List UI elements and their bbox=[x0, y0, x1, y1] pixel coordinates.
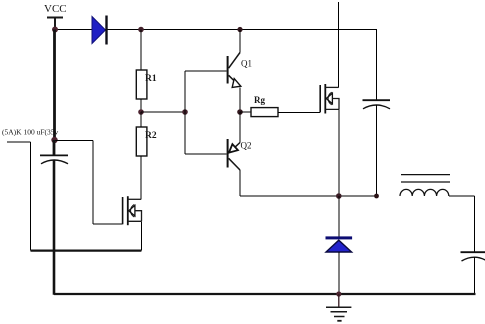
wire base rail vertical bbox=[184, 71, 186, 154]
node I (ground node) bbox=[336, 291, 341, 296]
wire inductor to C3 bbox=[449, 195, 475, 197]
wire Q2 collector vertical bbox=[239, 170, 241, 196]
node F (push-pull emitter junction) bbox=[237, 109, 243, 115]
resistor Rg bbox=[251, 108, 278, 117]
transistor Q1 (NPN) bbox=[228, 53, 241, 88]
node H (C1 / inductor junction) bbox=[374, 194, 379, 199]
capacitor C1 bbox=[363, 100, 391, 109]
svg-text:VCC: VCC bbox=[44, 3, 67, 15]
diode D2 (freewheeling) bbox=[326, 236, 353, 252]
wire C3 bottom lead bbox=[474, 257, 476, 294]
wire R1 top lead bbox=[140, 30, 142, 71]
diode D1 bbox=[92, 16, 107, 45]
node C (R1/R2 divider junction) bbox=[138, 109, 144, 115]
wire node to Rg bbox=[240, 111, 251, 113]
resistor R2 bbox=[136, 127, 147, 156]
wire Q4 source vertical bbox=[140, 221, 142, 250]
wire source return rail thick bbox=[31, 249, 142, 251]
node J (input cap junction) bbox=[51, 137, 57, 143]
transistor Q2 (PNP) bbox=[228, 139, 240, 170]
node B (top rail / R1 branch) bbox=[138, 27, 144, 33]
wire D2 cathode lead bbox=[338, 196, 340, 237]
wire C2 bottom thick vertical to bottom rail bbox=[53, 160, 56, 295]
wire Q1 emitter vertical bbox=[239, 88, 241, 113]
node E (Q1 collector on top rail) bbox=[237, 27, 242, 32]
svg-text:Rg: Rg bbox=[254, 95, 265, 105]
wire Q2 base lead bbox=[185, 153, 227, 155]
wire divider to base rail bbox=[141, 111, 185, 113]
wire output rail bbox=[240, 195, 377, 197]
wire gate feed horizontal bbox=[55, 140, 94, 142]
inductor L1 core lines bbox=[401, 175, 450, 182]
wire top rail corner down to C1 bbox=[376, 30, 378, 101]
wire D2 anode lead bbox=[338, 252, 340, 294]
wire Q1 collector vertical bbox=[239, 30, 241, 53]
node D (base rail junction) bbox=[182, 109, 188, 115]
svg-text:Q2: Q2 bbox=[241, 141, 252, 151]
wire gate feed vertical bbox=[92, 141, 94, 224]
VCC power symbol T-bar bbox=[47, 17, 63, 29]
wire R2 bottom lead to Q4 drain bbox=[140, 156, 142, 199]
wire Rg to Q3 gate bbox=[278, 111, 320, 113]
node A (VCC junction) bbox=[52, 27, 58, 33]
inductor L1 bbox=[400, 189, 449, 196]
capacitor C3 bbox=[461, 252, 485, 261]
wire R2 top lead bbox=[140, 112, 142, 127]
wire input stub bbox=[7, 141, 31, 143]
wire C1 bottom to output node bbox=[376, 105, 378, 196]
wire Q3 drain vertical bbox=[338, 2, 340, 87]
svg-text:R2: R2 bbox=[145, 131, 157, 141]
wire VCC vertical thick bbox=[53, 30, 56, 141]
wire bottom rail bbox=[54, 293, 476, 295]
MOSFET Q4 (low side) bbox=[123, 196, 142, 225]
wire gate feed to Q4 gate bbox=[93, 223, 123, 225]
ground bbox=[326, 294, 351, 321]
svg-text:Q1: Q1 bbox=[241, 59, 252, 69]
node G (output node) bbox=[336, 193, 342, 199]
MOSFET Q3 (output) bbox=[320, 84, 339, 114]
wire Q3 source vertical bbox=[338, 109, 340, 196]
wire top rail bbox=[55, 29, 377, 31]
wire input stub vertical bbox=[30, 142, 32, 251]
wire Q1 base lead bbox=[185, 70, 227, 72]
wire R1 bottom lead bbox=[140, 99, 142, 112]
capacitor C2 (input) bbox=[40, 140, 68, 164]
svg-text:R1: R1 bbox=[145, 74, 157, 84]
svg-text:(5A)K 100 uF(35v: (5A)K 100 uF(35v bbox=[2, 128, 58, 137]
wire Q2 emitter vertical bbox=[239, 112, 241, 143]
resistor R1 bbox=[136, 70, 147, 99]
wire C3 top lead bbox=[474, 196, 476, 252]
